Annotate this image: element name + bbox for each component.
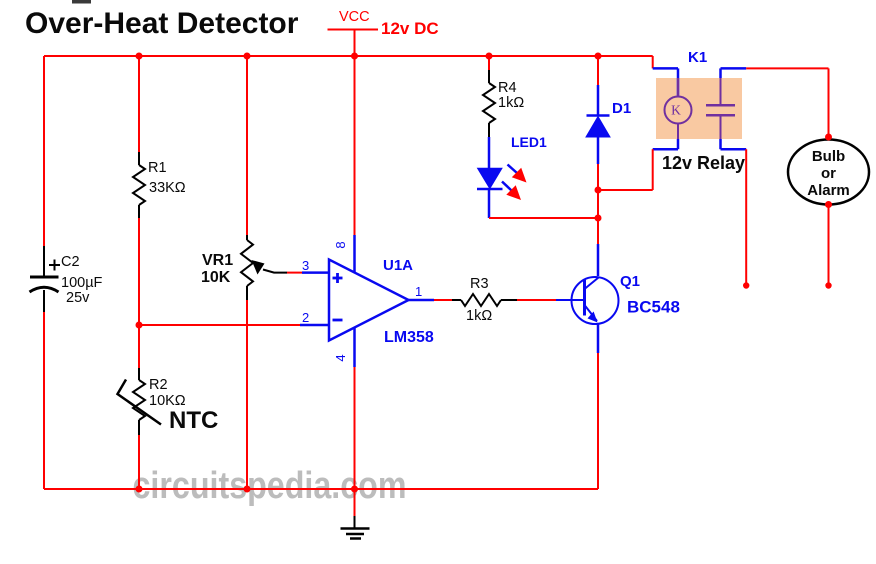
resistor R1: [133, 152, 186, 218]
svg-text:3: 3: [302, 258, 309, 273]
svg-text:C2: C2: [61, 254, 80, 270]
wire relay coil bottom return: [598, 139, 678, 190]
terminal dot contact: [743, 282, 749, 288]
wire VR1 column top: [246, 56, 248, 235]
thermistor R2 NTC: [118, 368, 219, 435]
wire relay contact top to bulb: [721, 68, 829, 140]
svg-text:R3: R3: [470, 276, 489, 292]
transistor Q1: [572, 244, 680, 353]
op-amp U1A: [329, 257, 434, 346]
node top rail junctions: [136, 53, 602, 60]
svg-text:25v: 25v: [66, 290, 90, 306]
svg-text:R1: R1: [148, 160, 167, 176]
svg-text:LM358: LM358: [384, 329, 434, 346]
svg-text:VCC: VCC: [339, 9, 370, 25]
node B junction: [595, 215, 602, 222]
node relay return junction: [595, 187, 602, 194]
svg-text:10K: 10K: [201, 269, 231, 286]
svg-text:100µF: 100µF: [61, 275, 103, 291]
stray mark top edge: [72, 0, 91, 4]
svg-text:1kΩ: 1kΩ: [498, 95, 524, 111]
wire R2 to bottom rail: [138, 435, 140, 489]
svg-text:circuitspedia.com: circuitspedia.com: [133, 465, 407, 507]
wire bulb bottom terminal: [828, 205, 830, 285]
svg-text:K: K: [671, 103, 681, 118]
VCC symbol: [328, 9, 379, 57]
wire node A to pin 2: [139, 324, 329, 326]
wire Q1 emitter to bottom rail: [597, 353, 599, 489]
relay coil K1: [665, 78, 692, 139]
pin 3 label: [302, 258, 309, 273]
node bottom rail junctions: [136, 486, 359, 493]
wire top rail corner to relay coil: [653, 56, 678, 97]
pin 4 label: [333, 354, 348, 361]
title Over-Heat Detector: [25, 7, 299, 40]
wire VR1 to bottom rail: [246, 300, 248, 489]
pin 4 wire: [353, 327, 356, 489]
bulb / alarm load: [788, 140, 869, 205]
svg-text:R4: R4: [498, 80, 517, 96]
svg-text:Q1: Q1: [620, 273, 640, 290]
wire R1 to node A: [138, 218, 140, 368]
wire relay contact bottom: [721, 139, 747, 284]
svg-text:Over-Heat Detector: Over-Heat Detector: [25, 7, 299, 40]
label 12v Relay: [662, 153, 745, 173]
svg-text:4: 4: [333, 354, 348, 361]
diode D1: [586, 85, 631, 164]
svg-text:8: 8: [333, 241, 348, 248]
svg-text:LED1: LED1: [511, 134, 547, 150]
wire LED to node B: [489, 217, 598, 219]
svg-text:NTC: NTC: [169, 407, 218, 434]
svg-text:VR1: VR1: [202, 252, 233, 269]
watermark circuitspedia.com: [133, 465, 407, 507]
svg-text:D1: D1: [612, 100, 631, 117]
wire top rail: [44, 55, 653, 57]
resistor R3: [452, 276, 517, 324]
label 12v DC: [381, 19, 439, 38]
wire D1 column top: [597, 56, 599, 85]
node bulb bottom: [825, 201, 832, 208]
node bulb top: [825, 134, 832, 141]
svg-text:12v Relay: 12v Relay: [662, 153, 745, 173]
terminal dot bulb: [825, 282, 831, 288]
svg-text:2: 2: [302, 310, 309, 325]
svg-text:1: 1: [415, 284, 422, 299]
wire R3 to Q1 base: [517, 299, 584, 301]
relay contact: [706, 78, 735, 139]
pin 1 label: [415, 284, 422, 299]
LED LED1: [477, 134, 547, 218]
wire left column: [43, 56, 45, 489]
wire R1 column top: [138, 56, 140, 152]
wire R4 column top: [488, 56, 490, 70]
svg-text:1kΩ: 1kΩ: [466, 308, 492, 324]
svg-text:12v DC: 12v DC: [381, 19, 439, 38]
svg-text:BC548: BC548: [627, 298, 680, 317]
capacitor C2: [30, 246, 103, 312]
potentiometer VR1: [201, 235, 287, 300]
K1 label: [688, 49, 707, 66]
svg-text:33KΩ: 33KΩ: [149, 180, 186, 196]
pin 8 label: [333, 241, 348, 248]
pin 1 output wire: [409, 299, 453, 302]
wire D1 to Q1 collector: [597, 164, 599, 244]
ground: [341, 489, 370, 539]
wire wiper to pin 3: [287, 272, 329, 274]
svg-text:R2: R2: [149, 377, 168, 393]
svg-text:Alarm: Alarm: [807, 182, 850, 199]
svg-text:Bulb: Bulb: [812, 148, 845, 165]
svg-text:or: or: [821, 165, 836, 182]
svg-text:K1: K1: [688, 49, 707, 66]
pin 2 label: [302, 310, 309, 325]
svg-text:U1A: U1A: [383, 257, 413, 274]
pin 8 wire: [354, 56, 356, 273]
wire bottom rail: [44, 488, 598, 490]
relay body K1 (orange box): [656, 78, 742, 139]
resistor R4: [483, 70, 524, 137]
node A junction: [136, 322, 143, 329]
